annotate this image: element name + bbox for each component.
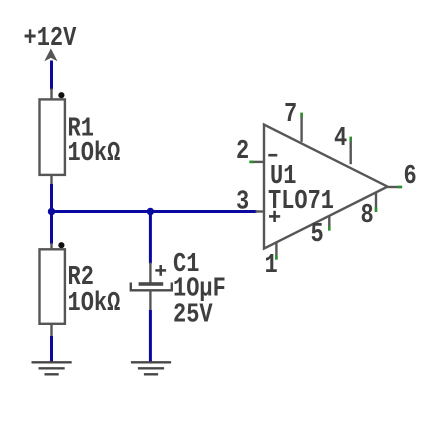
svg-text:+12V: +12V xyxy=(24,24,77,53)
node dot R1 xyxy=(58,92,64,98)
svg-text:1OkΩ: 1OkΩ xyxy=(68,289,121,318)
node dot R2 xyxy=(58,242,64,248)
resistor R2 body xyxy=(40,249,65,323)
svg-text:6: 6 xyxy=(404,162,417,191)
svg-text:1: 1 xyxy=(265,251,278,280)
capacitor C1 plus polarity mark xyxy=(155,265,166,276)
svg-text:2: 2 xyxy=(236,137,249,166)
ground symbol under C1 xyxy=(131,362,171,374)
ground symbol under R2 xyxy=(32,362,72,374)
svg-text:1OkΩ: 1OkΩ xyxy=(68,139,121,168)
op-amp pin 8 stub xyxy=(375,193,377,212)
op-amp U1 pin 4 stub xyxy=(350,137,352,164)
capacitor C1 pin top xyxy=(149,263,151,284)
resistor R1 pin bottom xyxy=(50,175,52,185)
wire power to R1 xyxy=(50,61,53,90)
wire R2 to ground xyxy=(50,336,53,362)
svg-text:R2: R2 xyxy=(68,263,94,292)
wire junction to C1 and op-amp xyxy=(52,210,257,213)
op-amp U1 pin 3 stub xyxy=(256,210,265,212)
op-amp U1 body triangle xyxy=(264,125,388,249)
wire R1 to junction to R2 xyxy=(50,184,53,244)
op-amp pin 5 stub xyxy=(328,216,330,231)
resistor R1 pin top xyxy=(50,89,52,100)
svg-text:7: 7 xyxy=(284,100,297,129)
pin 7 open end marker xyxy=(300,113,303,118)
wire C1 to ground xyxy=(149,310,152,362)
junction node C1 xyxy=(147,208,154,215)
pin 4 open end marker xyxy=(349,137,352,142)
svg-text:TLO71: TLO71 xyxy=(268,187,334,216)
op-amp U1 pin 7 stub xyxy=(300,113,302,142)
resistor R2 pin top xyxy=(50,243,52,250)
op-amp pin 1 stub xyxy=(275,242,277,259)
pin 8 open end marker xyxy=(375,207,378,212)
non-inverting input plus mark xyxy=(269,211,280,222)
pin 6 open end marker xyxy=(398,186,403,189)
junction node left xyxy=(48,208,55,215)
svg-text:5: 5 xyxy=(311,220,324,249)
pin 1 open end marker xyxy=(275,255,278,260)
resistor R2 pin bottom xyxy=(50,324,52,337)
power arrow symbol xyxy=(44,48,57,61)
svg-text:8: 8 xyxy=(361,201,374,230)
svg-text:3: 3 xyxy=(236,188,249,217)
resistor R1 body xyxy=(40,99,65,174)
capacitor C1 top plate xyxy=(139,282,164,286)
svg-text:1OµF: 1OµF xyxy=(173,275,226,304)
pin 2 open end marker xyxy=(249,161,254,164)
op-amp pin 6 output stub xyxy=(388,186,403,188)
op-amp U1 pin 2 stub xyxy=(250,161,264,163)
svg-text:4: 4 xyxy=(334,124,347,153)
wire junction down to C1 xyxy=(149,212,152,264)
inverting input minus mark xyxy=(268,154,277,157)
capacitor C1 bottom plate cup xyxy=(131,283,172,291)
capacitor C1 pin bottom xyxy=(149,290,151,311)
pin 5 open end marker xyxy=(328,226,331,231)
svg-text:25V: 25V xyxy=(173,301,213,330)
